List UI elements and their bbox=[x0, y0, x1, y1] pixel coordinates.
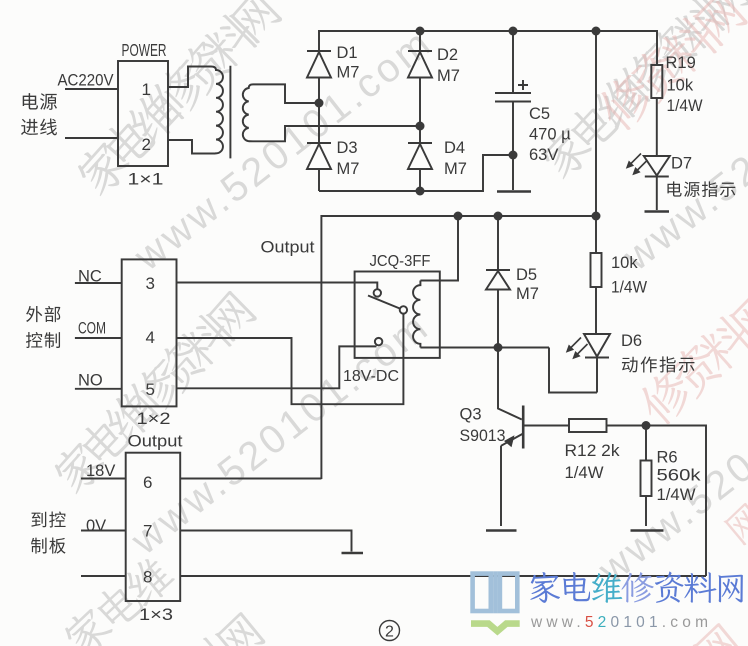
wire R19 to D7 bbox=[656, 98, 658, 156]
svg-text:POWER: POWER bbox=[122, 40, 167, 60]
wire pin2 to transformer primary bottom bbox=[168, 140, 211, 154]
wire D6 return to collector node bbox=[549, 348, 597, 393]
wire 10k to D6 bbox=[595, 287, 597, 334]
watermark gray 家电维修资料网 top-left bbox=[71, 0, 284, 200]
wire relay coil bottom / collector node bbox=[420, 347, 549, 349]
watermark pink 网 right edge lower bbox=[723, 502, 748, 546]
svg-text:7: 7 bbox=[143, 522, 152, 541]
wire secondary bottom to D2/D4 node bbox=[253, 126, 420, 141]
svg-text:M7: M7 bbox=[516, 285, 539, 303]
svg-text:1/4W: 1/4W bbox=[611, 279, 647, 297]
watermark gray 家电维修资料网 top-right bbox=[535, 0, 748, 183]
svg-text:R12 2k: R12 2k bbox=[565, 442, 621, 460]
svg-text:6: 6 bbox=[143, 473, 152, 492]
svg-text:COM: COM bbox=[78, 320, 106, 338]
resistor R12 bbox=[569, 419, 607, 432]
diode D4 bbox=[408, 126, 432, 191]
wire COM stub bbox=[75, 337, 122, 339]
wire main 18V feed vertical bbox=[595, 31, 597, 216]
svg-text:Output: Output bbox=[128, 433, 183, 451]
wire NO terminal5 to relay contact bbox=[177, 346, 377, 388]
relay K1 box bbox=[355, 272, 440, 358]
label 进线 bbox=[21, 118, 57, 135]
svg-text:R6: R6 bbox=[657, 449, 678, 467]
diode D3 bbox=[307, 103, 331, 191]
wire 0V stub bbox=[81, 530, 126, 532]
wire 18V stub bbox=[81, 478, 126, 480]
watermark gray www.520101.com upper-left bbox=[126, 20, 441, 280]
wire NC stub bbox=[75, 282, 122, 284]
relay coil bbox=[413, 281, 420, 348]
svg-text:M7: M7 bbox=[437, 67, 460, 85]
C5 negative end bar bbox=[497, 190, 531, 192]
logo text 家电维修资料网 bbox=[530, 572, 743, 603]
transformer T1 secondary winding bbox=[243, 84, 253, 141]
wire AC220V line2 to pin2 bbox=[65, 137, 118, 139]
label 外部 bbox=[26, 306, 60, 322]
svg-text:8: 8 bbox=[143, 568, 152, 587]
wire bottom rail to C5 minus bbox=[319, 155, 513, 191]
svg-text:4: 4 bbox=[146, 328, 155, 347]
wire pin7 to ground bbox=[180, 531, 351, 552]
svg-text:M7: M7 bbox=[337, 64, 360, 82]
svg-text:D2: D2 bbox=[437, 46, 458, 64]
svg-text:C5: C5 bbox=[529, 105, 550, 123]
logo book icon bbox=[473, 571, 518, 613]
svg-text:10k: 10k bbox=[667, 77, 694, 95]
wire node to R6 bbox=[645, 426, 647, 461]
wire AC220V line1 to pin1 bbox=[65, 88, 118, 90]
relay armature bbox=[368, 296, 400, 309]
wire R12 to node bbox=[607, 425, 647, 427]
Q3 emitter arrow bbox=[504, 435, 515, 447]
resistor R19 bbox=[651, 65, 662, 98]
svg-text:R19: R19 bbox=[666, 54, 696, 72]
svg-text:2: 2 bbox=[385, 624, 394, 641]
D7 emission arrows bbox=[626, 154, 648, 176]
svg-text:18V: 18V bbox=[86, 462, 115, 480]
transformer T1 primary winding bbox=[211, 67, 223, 154]
svg-text:D7: D7 bbox=[671, 155, 692, 173]
diode D1 bbox=[307, 51, 331, 103]
LED D6 bbox=[584, 334, 610, 393]
svg-text:D3: D3 bbox=[337, 139, 358, 157]
wire secondary top to D1/D3 node bbox=[253, 84, 319, 103]
svg-text:10k: 10k bbox=[611, 254, 638, 272]
watermark gray www.520101.com mid-left bbox=[123, 304, 438, 564]
svg-text:1/4W: 1/4W bbox=[657, 486, 696, 504]
wire top rail bbox=[319, 31, 657, 65]
svg-text:470 µ: 470 µ bbox=[529, 126, 571, 144]
Q3 base bar thick bbox=[522, 406, 525, 449]
watermark pink 修资料网 top-right corner bbox=[591, 0, 748, 136]
svg-text:1: 1 bbox=[142, 80, 151, 99]
wire COM terminal4 to relay arm bbox=[177, 314, 404, 405]
svg-text:1×1: 1×1 bbox=[128, 171, 164, 189]
svg-text:Q3: Q3 bbox=[460, 406, 482, 424]
svg-text:1×3: 1×3 bbox=[139, 606, 173, 624]
figure number 2 circled bbox=[380, 621, 400, 641]
connector J2 1x2 box bbox=[122, 259, 177, 406]
svg-text:2: 2 bbox=[142, 135, 151, 154]
wire pin6 to bus bbox=[180, 478, 321, 480]
svg-text:5: 5 bbox=[146, 380, 155, 399]
diode D5 bbox=[486, 216, 510, 348]
svg-text:3: 3 bbox=[146, 274, 155, 293]
svg-text:www.520101.com: www.520101.com bbox=[530, 614, 712, 631]
svg-text:D4: D4 bbox=[444, 139, 465, 157]
capacitor C5 bbox=[495, 31, 531, 190]
relay NC contact circle bbox=[374, 289, 381, 296]
wire 18V bus bbox=[321, 216, 596, 479]
watermark pink 修资料网 right edge bbox=[632, 287, 748, 430]
svg-text:NC: NC bbox=[78, 268, 102, 286]
svg-text:NO: NO bbox=[78, 372, 103, 390]
label 控制 bbox=[26, 332, 60, 348]
label 制板 bbox=[31, 538, 66, 554]
wire relay coil top to bus bbox=[420, 216, 458, 281]
wire right vertical R12 node to pin8 bbox=[646, 426, 706, 577]
ground bar R6 bbox=[631, 529, 664, 532]
wire R6 to ground bbox=[645, 496, 647, 526]
svg-text:1×2: 1×2 bbox=[137, 410, 171, 428]
svg-text:M7: M7 bbox=[444, 160, 467, 178]
watermark gray www.520101.com bottom-right bbox=[590, 333, 748, 593]
relay NO contact circle bbox=[375, 338, 382, 345]
svg-text:D6: D6 bbox=[621, 332, 642, 350]
svg-text:D5: D5 bbox=[516, 266, 537, 284]
wire NO stub bbox=[75, 388, 122, 390]
LED D7 bbox=[644, 156, 670, 210]
svg-text:JCQ-3FF: JCQ-3FF bbox=[370, 253, 431, 270]
svg-text:1/4W: 1/4W bbox=[565, 464, 604, 482]
svg-text:AC220V: AC220V bbox=[58, 71, 115, 90]
watermark pink 网 bottom-right corner bbox=[692, 622, 744, 646]
svg-text:Output: Output bbox=[261, 239, 315, 257]
svg-text:D1: D1 bbox=[337, 44, 358, 62]
svg-text:560k: 560k bbox=[657, 467, 702, 485]
transistor Q3 bbox=[498, 348, 569, 527]
relay common contact circle bbox=[400, 306, 407, 313]
svg-text:M7: M7 bbox=[337, 160, 360, 178]
svg-text:S9013: S9013 bbox=[460, 427, 506, 445]
watermark gray 料网 bottom-center bbox=[177, 609, 268, 646]
svg-text:63V: 63V bbox=[529, 146, 558, 164]
watermark gray 家电维 bottom-left bbox=[59, 551, 179, 646]
diode D2 bbox=[408, 31, 432, 126]
D6 emission arrows bbox=[566, 338, 588, 360]
wire NC terminal3 to relay contact bbox=[177, 283, 378, 290]
ground bar Q3 emitter bbox=[486, 529, 517, 532]
svg-text:0V: 0V bbox=[86, 517, 106, 535]
transformer T1 core bbox=[229, 66, 231, 159]
connector J1 POWER box bbox=[118, 61, 168, 166]
watermark gray 家电维修资料网 mid-left bbox=[48, 287, 259, 498]
wire pin8 stub bbox=[81, 575, 126, 577]
svg-text:18V-DC: 18V-DC bbox=[343, 368, 399, 385]
D7 end bar bbox=[645, 210, 670, 212]
label 电源 bbox=[23, 93, 57, 110]
label 到控 bbox=[31, 511, 65, 527]
label 电源指示 bbox=[667, 181, 735, 197]
wire pin8 long bbox=[180, 575, 706, 577]
resistor R6 bbox=[641, 461, 652, 497]
label 动作指示 bbox=[622, 356, 695, 372]
svg-text:1/4W: 1/4W bbox=[667, 97, 703, 115]
connector J3 1x3 box bbox=[126, 453, 181, 601]
resistor R3 10k (D6 branch) bbox=[595, 216, 597, 253]
wire pin1 to transformer primary top bbox=[168, 67, 211, 88]
watermark gray www.520101.com right-edge bbox=[615, 20, 748, 280]
ground bar 0V bbox=[342, 552, 364, 555]
